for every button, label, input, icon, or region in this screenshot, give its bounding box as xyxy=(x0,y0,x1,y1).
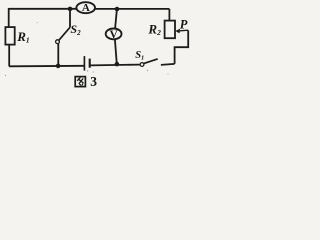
node junction dot S2 bottom xyxy=(56,64,61,69)
wire top rail left xyxy=(9,8,77,10)
wire right drop to R2 xyxy=(168,9,170,21)
node junction dot S2 top xyxy=(68,7,73,12)
resistor R2 xyxy=(165,21,175,39)
wire voltmeter top lead xyxy=(115,9,117,29)
ammeter U-A xyxy=(76,2,95,14)
switch S1 xyxy=(140,59,158,67)
wire slider arm of P xyxy=(175,30,189,64)
wire S2 bottom terminal xyxy=(57,44,59,66)
wire voltmeter bottom lead xyxy=(115,39,117,64)
wire bottom rail right segment xyxy=(161,64,175,65)
svg-text:P: P xyxy=(180,18,188,32)
node junction dot voltmeter bottom xyxy=(115,62,120,67)
wire left drop from R1 to bottom rail xyxy=(8,45,10,67)
svg-text:3: 3 xyxy=(90,74,97,89)
battery cell xyxy=(84,56,89,71)
wire S2 top terminal xyxy=(69,9,71,27)
voltmeter U-V xyxy=(106,29,122,41)
wire bottom rail middle segment xyxy=(90,64,140,67)
node junction dot voltmeter top xyxy=(115,7,120,12)
wire top rail right of ammeter xyxy=(95,8,170,10)
wire bottom rail left segment xyxy=(9,65,84,68)
scan speckles xyxy=(5,22,169,76)
svg-text:A: A xyxy=(82,2,90,14)
svg-text:V: V xyxy=(109,29,118,41)
switch S2 xyxy=(56,27,70,43)
wire left rail xyxy=(8,8,10,27)
caption: character tu (figure) xyxy=(75,77,85,87)
slider arrow P xyxy=(175,29,188,34)
resistor R1 xyxy=(5,27,14,44)
